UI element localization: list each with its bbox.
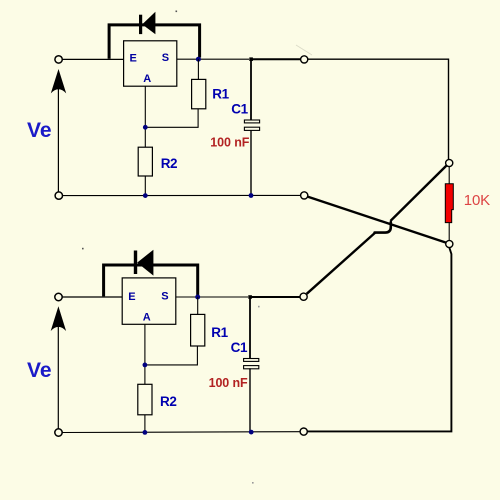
diode D2 xyxy=(134,250,154,276)
wire diode D1 loop xyxy=(109,25,200,59)
terminal OUT1- xyxy=(301,192,308,199)
wire U2 A pin down xyxy=(144,324,146,384)
terminal OUT2- xyxy=(300,428,307,435)
wire pot bottom lead xyxy=(448,223,450,241)
wire R2b to bottom rail xyxy=(144,415,146,433)
Ve arrow (top circuit) xyxy=(51,69,66,192)
wire C1 junction to output terminal xyxy=(251,58,301,60)
stray speck right of U2 xyxy=(258,306,260,308)
terminal IN2- xyxy=(55,429,62,436)
wire C1 top lead xyxy=(250,59,252,120)
capacitor C1 (bottom circuit) xyxy=(244,359,259,369)
wire pot bottom to bottom rail (right side) xyxy=(307,248,451,432)
diode D1 xyxy=(139,12,155,35)
wire pot top lead xyxy=(448,167,450,184)
junction node rail R2b xyxy=(143,430,148,435)
wire U1 S output xyxy=(177,58,249,60)
svg-text:E: E xyxy=(130,53,137,65)
terminal potentiometer bottom xyxy=(446,240,453,247)
wire bottom rail (top circuit) xyxy=(63,194,301,196)
wire C1b top lead xyxy=(249,297,251,358)
svg-text:C1: C1 xyxy=(231,340,248,355)
wire C1b junction to output terminal xyxy=(250,296,300,298)
wire C1 bottom lead xyxy=(250,130,252,196)
wire output terminal to potentiometer top xyxy=(308,59,449,159)
svg-text:S: S xyxy=(162,52,169,64)
wire R1b bottom to A node xyxy=(145,346,198,365)
svg-text:S: S xyxy=(161,291,168,303)
wire diode D2 loop xyxy=(104,265,198,296)
resistor R2 (bottom circuit) xyxy=(138,384,152,415)
junction node S2 xyxy=(195,295,200,300)
wire S node to R1 xyxy=(197,59,199,79)
potentiometer P1 10K body xyxy=(445,184,453,223)
svg-text:C1: C1 xyxy=(231,102,248,117)
junction node S1 xyxy=(196,57,201,62)
wire bottom rail (bottom circuit) xyxy=(62,431,300,434)
svg-text:10K: 10K xyxy=(464,192,490,209)
wire C1b bottom lead xyxy=(249,368,251,432)
wire R1 bottom to A node xyxy=(145,109,198,128)
svg-text:E: E xyxy=(128,291,135,303)
wire R2 to bottom rail xyxy=(144,176,146,196)
junction node rail C1b xyxy=(249,430,254,435)
svg-text:R1: R1 xyxy=(211,325,228,340)
wire diagonal OUT2+ to hop xyxy=(307,232,376,293)
junction node C1 top xyxy=(249,57,253,61)
terminal IN2+ (bottom circuit left input) xyxy=(55,293,62,300)
junction node rail C1 xyxy=(249,193,254,198)
wire hop over crossing xyxy=(375,222,391,232)
svg-text:Ve: Ve xyxy=(27,359,52,382)
svg-text:Ve: Ve xyxy=(27,119,52,142)
svg-text:R1: R1 xyxy=(212,87,229,102)
wire U1 A pin down xyxy=(144,86,146,147)
capacitor C1 (top circuit) xyxy=(244,120,259,130)
resistor R1 (bottom circuit) xyxy=(191,314,205,346)
stray speck middle xyxy=(82,248,84,250)
resistor R2 (top circuit) xyxy=(138,147,152,176)
wire diagonal hop to pot top xyxy=(390,166,446,221)
svg-text:100 nF: 100 nF xyxy=(210,136,249,150)
wire S2 node to R1 xyxy=(197,297,199,314)
wire U2 S output xyxy=(176,296,248,298)
terminal IN1+ (top circuit left input) xyxy=(55,56,62,63)
terminal OUT1+ (top circuit right output) xyxy=(301,56,308,63)
wire diagonal OUT1- to pot bottom xyxy=(308,197,446,243)
terminal OUT2+ (bottom circuit right output) xyxy=(300,293,307,300)
junction node C1b top xyxy=(248,295,252,299)
regulator U2 box xyxy=(122,278,176,324)
wire input to regulator U1 xyxy=(63,58,124,60)
svg-text:A: A xyxy=(143,73,151,85)
terminal potentiometer top xyxy=(446,159,453,166)
svg-text:R2: R2 xyxy=(161,156,177,171)
stray speck bottom xyxy=(252,482,254,484)
junction node A1 xyxy=(143,125,148,130)
faint erased mark near OUT1+ xyxy=(296,45,312,55)
stray speck top xyxy=(176,11,178,13)
Ve arrow (bottom circuit) xyxy=(51,306,66,428)
svg-text:A: A xyxy=(143,311,151,323)
wire input to regulator U2 xyxy=(63,296,123,298)
svg-text:100 nF: 100 nF xyxy=(209,376,248,390)
junction node rail R2 xyxy=(143,193,148,198)
svg-text:R2: R2 xyxy=(160,394,176,409)
junction node A2 xyxy=(143,363,148,368)
regulator U1 box xyxy=(124,41,177,86)
terminal IN1- xyxy=(55,192,62,199)
resistor R1 (top circuit) xyxy=(192,79,206,108)
